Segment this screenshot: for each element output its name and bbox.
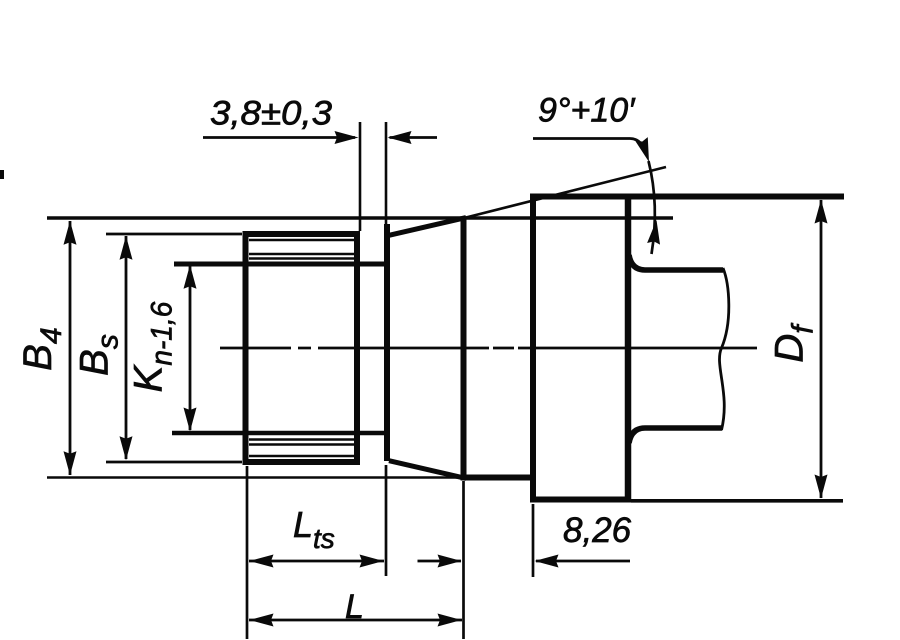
right block top edge / shaft top <box>530 194 844 200</box>
thread runout double lines bottom <box>249 438 356 441</box>
dim Df line <box>820 200 823 498</box>
dim Lts line <box>249 560 384 563</box>
thread crest line bottom <box>249 455 356 458</box>
svg-text:3,8±0,3: 3,8±0,3 <box>210 95 332 133</box>
taper top edge thick <box>389 218 466 236</box>
dim 3,8 left extension line <box>359 122 362 231</box>
dim 8,26 lines <box>418 560 462 563</box>
bore shoulder thick segment <box>461 475 534 481</box>
centerline <box>220 347 757 350</box>
bottom extension x=386 <box>385 465 388 576</box>
reference line top (B4 upper, angle reference) <box>47 216 673 220</box>
bottom extension x=463.5 <box>462 481 465 639</box>
middle section right edge <box>461 218 467 479</box>
thread runout double lines top <box>249 253 356 256</box>
thread root / K extension bar bottom <box>172 431 386 436</box>
bottom extension to Df <box>631 499 843 503</box>
bottom extension x=533 <box>532 504 535 577</box>
dim 3,8 right extension line <box>385 122 388 228</box>
dim L line <box>249 619 462 622</box>
edge scan mark <box>0 170 4 179</box>
dim 3,8 dimension line right <box>390 136 438 139</box>
bottom extension x=247 <box>246 466 249 639</box>
dim Bs extensions <box>106 233 242 236</box>
right block bottom edge <box>530 497 631 503</box>
right block right edge <box>625 194 632 503</box>
dim Bs line <box>125 236 128 459</box>
angle leader <box>533 139 647 156</box>
break line <box>719 268 728 430</box>
angle arc <box>649 161 655 254</box>
dim 3,8 dimension line left <box>203 136 355 139</box>
dim B4 line <box>69 221 72 475</box>
svg-text:9°+10′: 9°+10′ <box>538 92 636 130</box>
threaded left block outline <box>246 234 358 462</box>
stub bottom edge with fillet <box>629 428 722 443</box>
reference line bottom thin (B4 lower) <box>47 476 460 479</box>
dim K line <box>189 266 192 430</box>
collar vertical edge x=387 <box>384 224 390 461</box>
taper top extension thin to arc <box>464 167 666 218</box>
svg-text:8,26: 8,26 <box>563 511 632 550</box>
stub top edge with fillet <box>629 255 723 270</box>
taper bottom edge thick <box>389 461 466 479</box>
thread crest line top <box>249 239 356 242</box>
right block left edge <box>530 194 536 503</box>
svg-text:L: L <box>345 588 364 626</box>
thread root / K extension bar top <box>174 262 386 267</box>
